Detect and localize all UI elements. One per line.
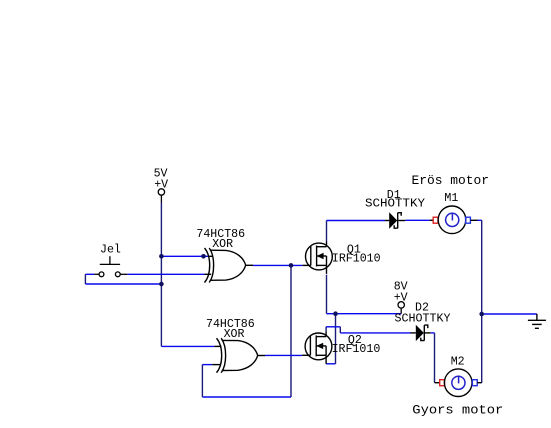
- transistor Q2: [302, 331, 332, 363]
- node dot right bus / ground: [479, 312, 484, 317]
- svg-text:M1: M1: [444, 192, 458, 205]
- wire D1 cathode to M1: [405, 219, 429, 221]
- ground: [528, 314, 546, 328]
- svg-text:SCHOTTKY: SCHOTTKY: [395, 313, 451, 326]
- diode D2: [411, 325, 431, 341]
- svg-text:M2: M2: [451, 355, 465, 368]
- wire Q2 source vertical to rail: [335, 314, 337, 364]
- wire feedback left vertical: [201, 365, 203, 397]
- wire feedback vertical from Q1 gate node: [290, 265, 292, 397]
- node dot rail/XOR1-tap: [159, 254, 164, 259]
- node dot rail/switch loop: [159, 282, 164, 287]
- transistor Q1: [303, 242, 333, 274]
- power terminal 8V: [398, 302, 404, 314]
- wire XOR2 output to Q2 gate: [265, 354, 302, 356]
- svg-text:XOR: XOR: [224, 328, 245, 341]
- svg-text:IRF1010: IRF1010: [332, 253, 381, 266]
- wire source rail to 8V terminal: [327, 313, 402, 315]
- wire Q2 drain to D2 anode: [340, 332, 410, 334]
- wire switch left horizontal: [85, 273, 94, 275]
- node dot Q1 gate feedback: [289, 263, 294, 268]
- wire feedback bottom horizontal: [202, 396, 291, 398]
- wire XOR1 output to Q1 gate: [253, 264, 303, 266]
- wire 5V rail vertical: [160, 203, 162, 347]
- wire XOR2 lower input horizontal: [202, 364, 212, 366]
- wire D2 cathode horizontal: [431, 332, 435, 334]
- wire M1 right to corner: [478, 219, 482, 221]
- wire Q2 source jog horizontal: [326, 363, 335, 365]
- diode D1: [385, 212, 405, 228]
- wire D2 cathode down to M2: [434, 333, 436, 383]
- wire switch loop bottom horizontal: [85, 283, 161, 285]
- wire Q1 drain vertical: [326, 221, 328, 242]
- switch Jel: [94, 256, 127, 276]
- svg-text:Erös motor: Erös motor: [412, 173, 490, 188]
- svg-text:Gyors motor: Gyors motor: [412, 402, 503, 417]
- svg-text:IRF1010: IRF1010: [332, 343, 381, 356]
- wire Q2 drain jog vertical small: [325, 327, 327, 332]
- svg-text:+V: +V: [154, 179, 168, 192]
- svg-text:+V: +V: [394, 291, 408, 304]
- node dot XOR1 upper pin: [201, 254, 206, 259]
- motor M1: [430, 219, 434, 221]
- wire Q1 drain to D1 anode: [327, 220, 386, 222]
- wire Q1 source vertical: [326, 275, 328, 314]
- wire Q2 drain staircase top horizontal: [326, 326, 340, 328]
- wire to ground horizontal: [482, 313, 537, 315]
- svg-text:XOR: XOR: [212, 238, 233, 251]
- wire Q2 drain staircase vertical: [339, 327, 341, 333]
- wire right bus vertical: [481, 220, 483, 382]
- wire switch left loop vertical: [84, 274, 86, 284]
- node dot source rail / Q2 source: [333, 311, 338, 316]
- XOR gate U1 (74HCT86): [205, 248, 246, 283]
- power terminal 5V: [158, 189, 164, 203]
- svg-text:SCHOTTKY: SCHOTTKY: [365, 198, 425, 211]
- motor M2: [435, 382, 440, 384]
- wire tap to XOR1 upper input: [161, 255, 209, 257]
- svg-text:Jel: Jel: [100, 244, 121, 257]
- wire XOR2 upper input horizontal: [161, 345, 214, 347]
- XOR gate U2: [217, 338, 258, 373]
- wire switch to XOR1 lower input: [127, 273, 204, 275]
